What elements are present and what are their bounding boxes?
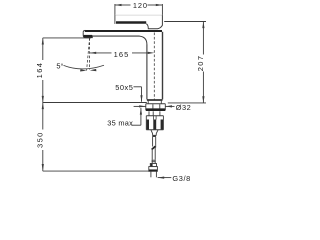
svg-text:207: 207: [196, 55, 205, 72]
svg-text:120: 120: [133, 1, 148, 10]
svg-text:Ø32: Ø32: [176, 103, 191, 112]
svg-text:164: 164: [35, 62, 44, 79]
svg-text:G3/8: G3/8: [172, 174, 190, 183]
svg-text:165: 165: [114, 50, 130, 59]
svg-text:5°: 5°: [56, 61, 63, 70]
svg-text:350: 350: [35, 131, 44, 148]
svg-text:35 max: 35 max: [107, 118, 133, 127]
svg-text:50x5: 50x5: [115, 83, 133, 92]
